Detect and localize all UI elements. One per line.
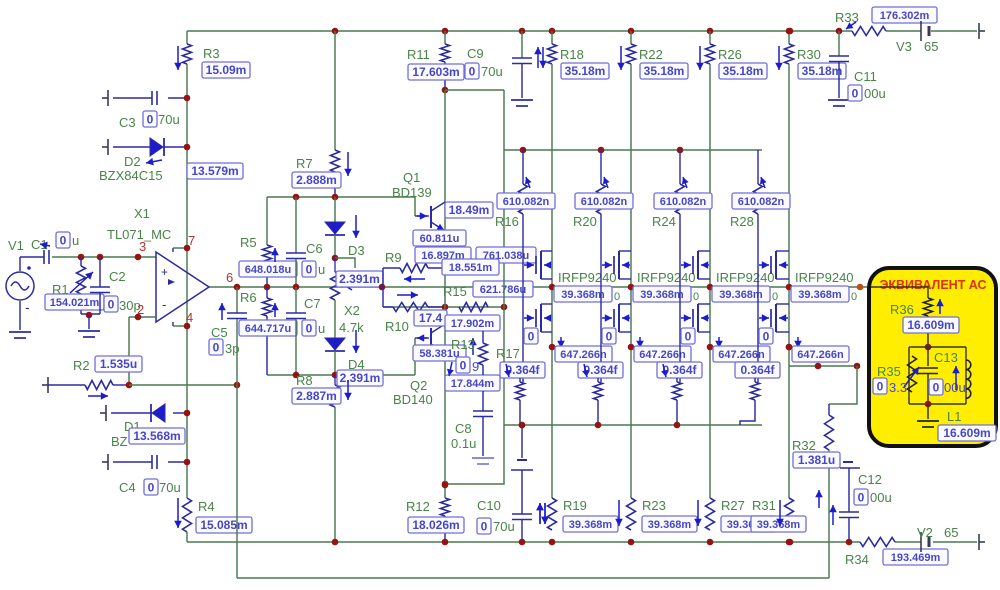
MOSFET M1a IRFP9240 upper [524,251,552,279]
wire R9 left lead [383,267,400,269]
svg-text:R2: R2 [73,358,90,373]
resistor R19 [548,498,557,530]
svg-text:18.49m: 18.49m [449,203,490,217]
wire rail to R11 [444,31,446,44]
svg-text:15.085m: 15.085m [200,518,247,532]
node C4/x187 junction [184,459,191,466]
source V1 sine generator [6,266,34,300]
node gate rail col2 [598,147,605,154]
wire output down to C5 [236,287,238,313]
node source row col3 [707,344,714,351]
wire gate rail to R24 [679,150,681,184]
svg-text:R13: R13 [451,337,475,352]
svg-text:0: 0 [306,263,313,277]
capacitor C12 top plate [840,467,860,469]
current arrow R18 down [539,47,547,68]
resistor R5 [263,245,272,263]
wire gate feed vertical x=504 [503,90,505,425]
node bottom rail col2 [628,539,635,546]
value box R2 1.535u [95,356,142,372]
svg-text:621.786u: 621.786u [480,284,526,296]
MOSFET M3a IRFP9240 upper [681,251,710,279]
wire base rail to D3 [334,197,336,222]
svg-text:0: 0 [877,380,884,394]
current arrow R18 up [534,47,542,68]
node R1/C2 ground junction [86,312,93,319]
svg-text:39.368m: 39.368m [648,519,692,531]
value box 0.364f col3 [657,362,702,378]
svg-text:0: 0 [685,330,692,344]
node output branch b [854,363,861,370]
svg-text:0: 0 [858,491,865,505]
wire R7 to Q1 base rail [334,172,336,197]
svg-text:+: + [161,265,168,279]
wire R32 top lead [828,404,830,415]
wire feedback return bottom [237,577,829,579]
capacitor C4 [152,455,157,469]
svg-text:R9: R9 [385,250,402,265]
svg-text:R12: R12 [406,499,430,514]
wire gate bias rail lower [504,424,762,426]
value box source col3 647.266n [713,346,770,362]
node top rail C9 [519,28,526,35]
value box R7 2.888m [292,172,341,188]
svg-text:0: 0 [933,381,940,395]
svg-text:R7: R7 [296,156,313,171]
node tank top [925,344,932,351]
value box D1 13.568m [129,428,185,444]
svg-text:648.018u: 648.018u [245,264,291,276]
current arrow R27 [694,500,702,526]
wire C10 top lead [521,425,523,458]
svg-text:0: 0 [852,87,859,101]
resistor R15 [459,303,488,312]
svg-text:R19: R19 [563,498,587,513]
wire gate column x=523 [522,214,524,382]
wire bottom rail to V2 [895,541,921,543]
value box drain current col1 [554,286,612,302]
svg-text:0: 0 [147,113,154,127]
capacitor C7 [286,313,306,319]
node pin2 junction [135,314,142,321]
svg-text:18.551m: 18.551m [449,262,493,274]
resistor R26 [706,44,715,64]
node output line col1 [549,284,556,291]
resistor R30 [785,44,794,64]
value box Q1 18.49m [445,202,493,218]
svg-text:2.391m: 2.391m [339,272,380,286]
value box R20 610.082n [575,193,633,209]
resistor source col1 [516,382,525,400]
wire X2 jog [335,258,355,268]
svg-text:0: 0 [460,359,467,373]
wire V1 bottom lead [19,301,21,330]
terminal D1 input [100,405,106,421]
wire feedback column x=237 [236,319,238,578]
wire V1 to C1 [20,256,44,258]
wire drain column x=789 [788,64,790,498]
wire C2 top lead [99,257,101,287]
svg-text:6: 6 [226,270,233,285]
wire D4 to lower rail [334,351,336,375]
ground C9 [511,100,533,106]
value box 0.364f col4 [735,362,780,378]
value box X2 2.391m [336,271,383,287]
wire C9 top lead [521,31,523,58]
MOSFET M2a IRFP9240 upper [602,251,631,279]
node pin4 junction [184,323,191,330]
svg-text:R18: R18 [560,47,584,62]
svg-text:65: 65 [924,39,938,54]
node output branch a [815,363,822,370]
resistor R28 [754,184,763,214]
svg-text:0: 0 [693,291,699,303]
svg-text:R26: R26 [718,47,742,62]
svg-text:17.603m: 17.603m [412,65,459,79]
wire drain column x=631 [630,64,632,498]
node pin7 junction [184,245,191,252]
svg-text:0: 0 [772,291,778,303]
resistor R16 [519,184,528,214]
node output at box [857,284,864,291]
resistor R23 [627,498,636,530]
wire C10 mid lead [521,470,523,514]
svg-text:3p: 3p [225,341,239,356]
wire C11 top lead [838,31,840,56]
inductor L1 [966,360,971,398]
capacitor C1 [44,250,49,264]
svg-text:17.4: 17.4 [419,311,443,325]
node R15/gate feed junction [501,304,508,311]
capacitor C13 [918,368,938,374]
node return/x445 junction [442,481,449,488]
node C1/R1 junction [78,254,85,261]
svg-text:35.18m: 35.18m [723,64,764,78]
wire R2 right lead [113,384,129,386]
svg-text:-: - [25,299,30,315]
value box R8 2.887m [292,388,341,404]
svg-text:L1: L1 [947,409,961,424]
current arrow R22 [617,46,625,70]
MOSFET M4b IRFP9240 lower [759,304,789,332]
node top rail C11 [836,28,843,35]
wire R5 to output [266,263,268,287]
zener diode D2 [150,138,164,156]
value box C10 animated 0 [477,518,491,534]
svg-text:00u: 00u [864,86,886,101]
resistor R34 [860,538,895,547]
value box R27 39.368m [721,516,776,532]
svg-text:193.469m: 193.469m [891,552,941,564]
current arrow R10 [397,291,418,299]
wire R8 down to bottom rail [334,407,336,542]
label C12 minus [843,461,853,463]
wire gate rail to R28 [757,150,759,184]
wire Q2 base rail [267,374,415,376]
current arrow source col4 [794,337,802,348]
svg-text:u: u [318,321,325,336]
wire 0.364f top col3 [676,378,678,382]
wire pin4 to x187 [173,325,187,327]
node output line col4 [786,284,793,291]
capacitor C6 [286,253,306,259]
svg-text:R22: R22 [639,47,663,62]
value box C13 animated 0 [929,379,943,395]
svg-text:0: 0 [763,330,770,344]
arrow 0.364f col1 [504,364,511,377]
resistor R2 [85,381,113,390]
svg-text:C9: C9 [467,46,484,61]
wire Q1/Q2 vertical x=445 [444,90,446,498]
svg-text:R20: R20 [573,214,597,229]
wire pin4 stub [172,322,174,326]
wiper arrow X2 [338,281,352,290]
MOSFET M2b IRFP9240 lower [602,304,631,332]
MOSFET M1b IRFP9240 lower [524,304,552,332]
svg-text:39.368m: 39.368m [798,289,842,301]
current arrow R8 [344,380,352,400]
value box C7 animated 0 [302,320,316,336]
node output line col2 [628,284,635,291]
wire C1 to op-amp pin3 [52,256,156,258]
svg-text:BZ: BZ [111,434,128,449]
node lower rail col3 [674,422,681,429]
wire X2 top [334,258,336,272]
wire R6 to lower rail [266,316,268,375]
label C10 minus [517,459,527,461]
svg-text:X2: X2 [344,303,360,318]
value box R19 39.368m [563,516,618,532]
wire R4 to bottom rail [186,532,188,542]
svg-text:R23: R23 [642,498,666,513]
svg-text:0: 0 [481,520,488,534]
node C7 lower rail junction [293,372,300,379]
value box R11 17.603m [408,64,464,80]
resistor source col2 [594,382,603,400]
value box 58.381u [413,345,466,361]
value box R35 animated 0 [873,378,887,394]
wire gate column x=680 [679,214,681,382]
wire 0.364f top col4 [754,378,756,382]
diode D3 [325,222,345,235]
terminal D2 input [102,139,108,155]
current arrow R19 up [536,503,544,524]
node X2 wiper junction [379,284,386,291]
value box D2 13.579m [187,163,243,179]
wire -V bottom rail [187,541,860,543]
wire tank left [908,347,910,404]
svg-text:R3: R3 [203,46,220,61]
wire V3 to output terminal [931,30,977,32]
svg-text:0: 0 [306,322,313,336]
svg-text:R32: R32 [792,438,816,453]
value box R8 sense 2.391m [337,370,383,386]
svg-text:R17: R17 [496,346,520,361]
wire top rail to V3 [886,30,921,32]
current arrow C10 up [536,503,544,524]
resistor R4 [183,498,192,532]
svg-text:39.368m: 39.368m [719,289,763,301]
svg-text:R35: R35 [877,364,901,379]
wire 0.364f top col2 [597,378,599,382]
arrow R20 [603,177,610,188]
svg-text:60.811u: 60.811u [420,233,460,245]
wire rail to R5 [266,197,268,245]
value box drain current col4 [791,286,849,302]
svg-text:9: 9 [472,359,479,374]
value box animated 0 Q2 [456,357,470,373]
svg-text:u: u [72,233,79,248]
resistor R6 [263,298,272,316]
svg-text:0: 0 [851,291,857,303]
value box R18 35.18m [561,63,609,79]
arrow R33 [846,22,856,29]
current arrow source col3 [715,337,723,348]
arrow R24 [682,177,689,188]
base arrow Q1 [417,212,427,220]
wire R2 left lead [48,384,85,386]
svg-text:39.368m: 39.368m [640,289,684,301]
node C12/bottom rail junction [846,539,853,546]
svg-text:647.266n: 647.266n [560,349,607,361]
svg-text:BZX84C15: BZX84C15 [99,168,163,183]
value box 17.844m [445,375,500,391]
capacitor C10 top plate [511,469,533,471]
node source row col4 [786,344,793,351]
svg-text:610.082n: 610.082n [738,196,785,208]
emitter arrow Q1 [437,224,445,230]
current arrow R19 down [541,503,549,524]
wire C7 bottom lead [295,319,297,375]
resistor R18 [548,44,557,64]
wire C4 left lead [113,461,152,463]
wire rail to R26 [709,31,711,44]
svg-text:C3: C3 [119,115,136,130]
resistor source col4 [751,382,760,400]
wire output into box [871,287,928,298]
value box R16 610.082n [497,193,555,209]
value box source col2 647.266n [634,346,691,362]
svg-text:C12: C12 [858,472,882,487]
wire pin7 to x187 [173,247,187,249]
arrow 0.364f col3 [661,364,668,377]
svg-text:610.082n: 610.082n [503,196,550,208]
node R2/pin2 junction [126,382,133,389]
capacitor C12 plates [839,512,859,518]
wire C10 bottom lead [521,520,523,542]
value box R28 610.082n [732,193,790,209]
svg-text:R16: R16 [495,214,519,229]
node top rail col4 [786,28,793,35]
wire pin7 stub [172,248,174,252]
current arrow R32 [815,490,823,508]
resistor R7 [331,150,340,172]
wire 0.364f bottom col3 [676,400,678,425]
svg-text:R34: R34 [845,552,869,567]
wire C13 top lead [927,347,929,366]
resistor R10 [393,303,428,312]
resistor R3 [183,44,192,64]
capacitor C3 [152,91,157,105]
value box 0.364f col1 [500,362,545,378]
svg-text:647.266n: 647.266n [797,349,844,361]
svg-text:IRFP9240: IRFP9240 [795,270,854,285]
value box C2 animated 0 [104,296,118,312]
capacitor C11 [829,56,849,62]
ground C8 [472,458,494,464]
wire tank to ground [927,404,929,419]
wire R10 left lead [383,306,393,308]
battery V2 [921,532,929,552]
potentiometer X2 [331,272,340,300]
svg-text:R8: R8 [296,373,313,388]
svg-text:610.082n: 610.082n [581,196,628,208]
node D2/x187 junction [184,144,191,151]
resistor R9 [400,264,428,273]
current arrow D3 [352,215,360,238]
svg-text:D2: D2 [124,154,141,169]
value box gate col2 animated 0 [602,328,616,344]
svg-text:C7: C7 [304,296,321,311]
current arrow source col2 [636,337,644,348]
wire C11 bottom lead [838,62,840,98]
wire main output line [208,286,871,288]
current arrow R13 up [469,338,477,355]
wire R32 to feedback return [828,450,830,578]
terminal +V output [979,23,985,39]
svg-text:0: 0 [148,481,155,495]
ground V1 [9,332,31,338]
current arrow C12 [829,505,837,525]
wire C9 bottom lead [521,64,523,98]
node source row col1 [549,344,556,351]
svg-text:13.568m: 13.568m [133,429,180,443]
resistor R13 [479,343,488,365]
svg-text:C4: C4 [119,480,136,495]
svg-text:1.381u: 1.381u [798,453,835,467]
svg-text:17.844m: 17.844m [451,378,495,390]
svg-text:0.1u: 0.1u [451,436,476,451]
wire Q2 base from rail [414,338,416,375]
wire R11 node to gate feed [445,89,504,91]
current arrow R23 [615,500,623,526]
wire C4 right lead [168,461,187,463]
node R12/bottom rail junction [442,539,449,546]
terminal R2 input [42,377,48,393]
svg-text:Q1: Q1 [403,170,420,185]
svg-text:R28: R28 [730,214,754,229]
current arrow C5 [218,303,226,320]
svg-text:0.364f: 0.364f [740,363,775,377]
node top rail x335 [332,28,339,35]
node op-amp output [234,284,241,291]
svg-text:R36: R36 [890,302,914,317]
node pin3 junction [135,254,142,261]
capacitor C9 [512,58,532,64]
svg-text:R10: R10 [385,319,409,334]
svg-text:R30: R30 [797,47,821,62]
node lower rail col2 [595,422,602,429]
svg-text:00u: 00u [870,490,892,505]
node output line col3 [707,284,714,291]
wire R11 bottom lead [444,62,446,90]
node top rail x445 [442,28,449,35]
wiper arrow R1 [70,272,93,293]
svg-text:C6: C6 [306,241,323,256]
op-amp X1 TL071_MC [156,252,209,322]
value box drain current col3 [712,286,770,302]
svg-text:1.535u: 1.535u [100,357,137,371]
